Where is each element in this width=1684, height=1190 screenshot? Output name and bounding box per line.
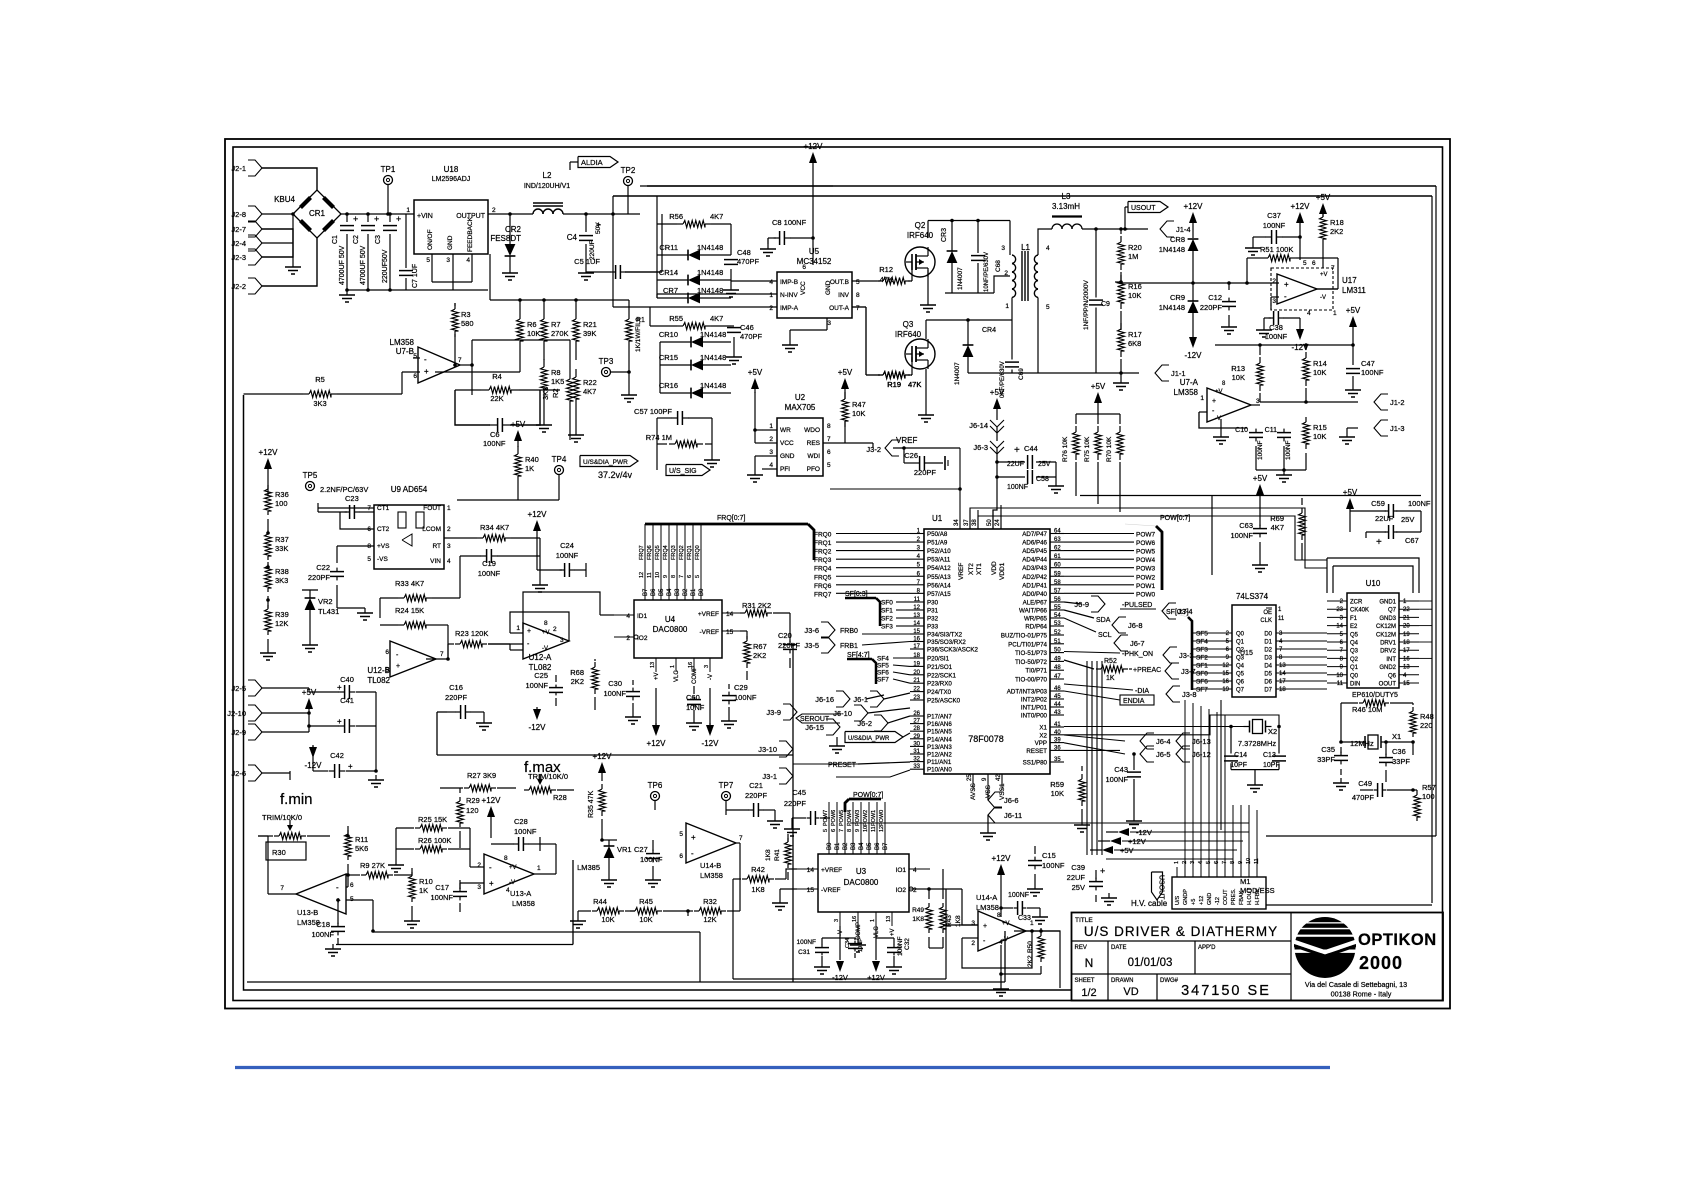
svg-text:R21: R21	[583, 320, 597, 329]
svg-text:11: 11	[647, 572, 653, 578]
svg-text:N-INV: N-INV	[780, 292, 798, 299]
svg-text:-VREF: -VREF	[821, 887, 841, 894]
svg-text:FRQ0: FRQ0	[695, 545, 701, 560]
ground C10C11	[1283, 470, 1285, 475]
svg-text:10K: 10K	[639, 915, 652, 924]
svg-text:1: 1	[670, 665, 676, 668]
wire L3 right	[1082, 228, 1128, 230]
svg-text:P52/A10: P52/A10	[927, 548, 951, 555]
svg-text:FRQ3: FRQ3	[671, 545, 677, 560]
svg-text:6: 6	[802, 264, 806, 271]
title block col dividers rev row	[1107, 941, 1109, 974]
svg-text:14: 14	[807, 867, 815, 874]
wire right rail y905	[1266, 904, 1432, 906]
svg-text:U9 AD654: U9 AD654	[391, 485, 428, 494]
svg-text:PCL/TI01/P74: PCL/TI01/P74	[1008, 641, 1047, 648]
svg-text:-12V: -12V	[1185, 351, 1203, 360]
svg-text:8: 8	[671, 575, 677, 578]
svg-text:U5: U5	[809, 247, 820, 256]
svg-text:CLK: CLK	[1260, 618, 1272, 624]
capacitor C2	[361, 225, 375, 227]
svg-text:U7-A: U7-A	[1180, 378, 1199, 387]
svg-text:1M: 1M	[1128, 252, 1138, 261]
transformer L1 primary	[1012, 255, 1016, 264]
ground U1	[987, 815, 989, 828]
test point TP2	[624, 177, 633, 186]
svg-text:+: +	[337, 717, 342, 726]
svg-text:+: +	[1100, 866, 1105, 876]
ground R74	[711, 455, 713, 460]
connector J2-1	[248, 160, 262, 176]
svg-text:J2-5: J2-5	[231, 684, 246, 693]
svg-text:10K: 10K	[1313, 368, 1326, 377]
svg-text:AD0/P40: AD0/P40	[1022, 591, 1047, 598]
svg-text:DIN: DIN	[1350, 682, 1360, 688]
svg-text:C2: C2	[353, 235, 360, 244]
svg-text:USOUT: USOUT	[1158, 875, 1165, 900]
svg-text:+: +	[1284, 280, 1289, 289]
ground J1-3	[1346, 432, 1348, 437]
svg-text:5: 5	[385, 667, 389, 674]
svg-text:C24: C24	[560, 541, 574, 550]
svg-text:INV: INV	[838, 292, 850, 299]
svg-text:+: +	[396, 663, 400, 670]
wire U10 right fan	[1419, 600, 1432, 602]
wire M1 right drops	[1248, 823, 1250, 867]
svg-text:R56: R56	[669, 212, 683, 221]
svg-text:-: -	[489, 863, 492, 872]
svg-text:U13-A: U13-A	[510, 889, 531, 898]
wire -V down arrow	[836, 961, 844, 972]
svg-text:Via del Casale di Settebagni,: Via del Casale di Settebagni, 13	[1305, 980, 1407, 989]
border frame outer	[225, 139, 1450, 1009]
svg-text:C10: C10	[1235, 427, 1248, 434]
IC U1 78F0078 box	[924, 529, 1050, 774]
svg-text:100NF: 100NF	[1408, 499, 1431, 508]
svg-text:R15: R15	[1313, 423, 1327, 432]
svg-text:10K: 10K	[1128, 291, 1141, 300]
svg-text:IRF640: IRF640	[895, 330, 922, 339]
capacitor C6 100NF	[497, 418, 499, 432]
svg-text:FRQ[0:7]: FRQ[0:7]	[717, 515, 745, 522]
svg-text:+5V: +5V	[990, 388, 1005, 397]
resistor R15 10K	[1303, 422, 1310, 444]
svg-text:R2: R2	[551, 388, 560, 398]
svg-text:P55/A13: P55/A13	[927, 574, 951, 581]
svg-text:C31: C31	[798, 949, 810, 956]
svg-text:P14/AN4: P14/AN4	[927, 736, 952, 743]
svg-text:+12V: +12V	[528, 510, 548, 519]
svg-text:POW6: POW6	[1136, 540, 1156, 547]
svg-text:-12: -12	[1215, 897, 1221, 905]
svg-text:13: 13	[650, 662, 656, 668]
SF bus right	[1188, 617, 1192, 690]
svg-text:10: 10	[1336, 673, 1343, 679]
resistor R76 10K vertical	[1073, 432, 1080, 454]
svg-text:ENDIA: ENDIA	[1123, 698, 1145, 705]
wire bottom run	[732, 879, 734, 979]
svg-text:25: 25	[967, 774, 973, 781]
svg-text:VR1: VR1	[617, 845, 632, 854]
svg-text:+12V: +12V	[593, 752, 613, 761]
flag U/S&DIA_PWR 2	[845, 732, 903, 743]
svg-text:4: 4	[769, 462, 773, 469]
svg-text:B5: B5	[659, 588, 665, 596]
svg-text:P12/AN2: P12/AN2	[927, 752, 952, 759]
svg-text:+5V: +5V	[838, 368, 853, 377]
svg-text:Q5: Q5	[1350, 632, 1359, 638]
ground R26	[395, 860, 397, 865]
resistor R38 3K3	[265, 566, 272, 588]
svg-text:+VS: +VS	[377, 543, 390, 550]
svg-text:6: 6	[679, 853, 683, 860]
svg-text:-: -	[336, 883, 339, 892]
svg-text:J3-8: J3-8	[1182, 690, 1197, 699]
svg-text:U/S&DIA_PWR: U/S&DIA_PWR	[583, 459, 628, 466]
svg-text:U4: U4	[665, 615, 676, 624]
svg-text:TP5: TP5	[303, 471, 318, 480]
capacitor C58 100NF	[1027, 470, 1029, 484]
svg-text:RD/P64: RD/P64	[1025, 624, 1047, 631]
svg-text:U1: U1	[932, 514, 943, 523]
ground C41C42	[375, 775, 377, 780]
svg-text:IMP-A: IMP-A	[780, 305, 799, 312]
svg-text:COUT: COUT	[1223, 889, 1229, 905]
flag USOUT vertical	[1152, 872, 1163, 900]
svg-text:P30: P30	[927, 600, 939, 607]
ground C21	[774, 816, 776, 821]
svg-text:C59: C59	[1371, 499, 1385, 508]
svg-text:AD3/P43: AD3/P43	[1022, 565, 1047, 572]
svg-text:CR1: CR1	[309, 209, 326, 218]
svg-text:P20/SI1: P20/SI1	[927, 656, 950, 663]
wire U14B out	[736, 842, 740, 844]
svg-text:SF7: SF7	[877, 677, 889, 684]
svg-text:POW0: POW0	[1136, 591, 1156, 598]
svg-text:C32: C32	[904, 938, 911, 950]
svg-text:1K8: 1K8	[751, 885, 764, 894]
svg-text:P33: P33	[927, 624, 939, 631]
svg-text:1K5: 1K5	[551, 377, 564, 386]
svg-text:R4: R4	[492, 372, 502, 381]
svg-text:J2-2: J2-2	[231, 282, 246, 291]
svg-text:23: 23	[1336, 607, 1343, 613]
power arrow +12V R55	[598, 762, 606, 773]
connector J2-9	[248, 724, 262, 740]
svg-text:16: 16	[1403, 656, 1410, 662]
power arrow +12V U17	[1296, 212, 1304, 223]
svg-text:+5: +5	[1191, 899, 1197, 905]
wire feedback	[471, 254, 473, 282]
svg-text:220PF: 220PF	[308, 573, 331, 582]
svg-text:J3-7: J3-7	[1181, 667, 1196, 676]
connector J6-9	[1091, 596, 1105, 612]
svg-text:R32: R32	[703, 897, 717, 906]
svg-text:C57 100PF: C57 100PF	[634, 407, 672, 416]
svg-text:C28: C28	[514, 817, 528, 826]
svg-text:1: 1	[1333, 310, 1337, 317]
svg-text:13: 13	[886, 916, 892, 922]
svg-text:C67: C67	[1405, 536, 1419, 545]
svg-text:1: 1	[516, 625, 520, 632]
svg-text:DAC0800: DAC0800	[844, 878, 879, 887]
svg-text:347150 SE: 347150 SE	[1181, 983, 1271, 999]
wire C10C11R15 bottom	[1256, 469, 1306, 471]
svg-text:6: 6	[687, 575, 693, 578]
ground C33	[1039, 912, 1041, 917]
svg-text:DRAWN: DRAWN	[1111, 978, 1133, 984]
svg-text:14: 14	[1336, 624, 1343, 630]
svg-text:22UF: 22UF	[1067, 873, 1086, 882]
svg-text:2: 2	[913, 887, 917, 894]
svg-text:J6-11: J6-11	[1004, 811, 1022, 820]
ground C60	[693, 718, 695, 723]
flag ENDIA	[1120, 695, 1154, 705]
svg-text:3K3: 3K3	[275, 576, 288, 585]
flag U/S_SIG	[666, 465, 710, 476]
svg-text:R68: R68	[570, 668, 584, 677]
svg-text:100NF: 100NF	[640, 855, 663, 864]
power arrow +5V J2	[305, 698, 313, 709]
transistor Q2 IRF640	[905, 247, 935, 277]
wire C36 bottom	[1385, 778, 1387, 782]
resistor R16 10K	[1118, 281, 1125, 303]
svg-text:D7: D7	[1264, 688, 1272, 694]
svg-text:DATE: DATE	[1111, 945, 1127, 951]
svg-text:SCL: SCL	[1098, 632, 1112, 639]
connector J3-7	[1165, 663, 1179, 679]
svg-text:VD: VD	[1123, 986, 1138, 998]
svg-text:REV: REV	[1075, 945, 1087, 951]
ground C31	[821, 962, 823, 967]
svg-text:10K: 10K	[1051, 789, 1064, 798]
wire U14A in4	[943, 924, 978, 926]
connector J2-7	[248, 221, 262, 237]
svg-text:+: +	[489, 879, 494, 888]
title block outline	[1072, 913, 1444, 1001]
svg-text:3: 3	[827, 320, 831, 327]
svg-text:+VREF: +VREF	[821, 867, 842, 874]
svg-text:580: 580	[461, 319, 474, 328]
svg-text:25V: 25V	[1401, 515, 1414, 524]
svg-text:R39: R39	[275, 610, 289, 619]
svg-text:Q1: Q1	[1236, 640, 1245, 646]
svg-text:C7 1UF: C7 1UF	[412, 264, 419, 288]
svg-text:POW6: POW6	[831, 810, 837, 826]
svg-text:10K: 10K	[601, 915, 614, 924]
svg-text:X1: X1	[1392, 732, 1401, 741]
ground C45	[791, 824, 793, 829]
connector J3-2	[885, 440, 899, 456]
wire power bundle +5V	[1114, 849, 1237, 851]
wire R13R14 toprail	[1215, 344, 1353, 346]
bridge diode top-right	[322, 196, 335, 209]
wire -VREF	[780, 888, 797, 890]
svg-text:SF7: SF7	[1196, 687, 1208, 694]
svg-text:FRQ4: FRQ4	[663, 545, 669, 560]
connector J2-10	[248, 705, 262, 721]
svg-text:10PF: 10PF	[1230, 762, 1247, 769]
svg-text:GND2: GND2	[1379, 665, 1396, 671]
svg-text:SF4: SF4	[1196, 639, 1208, 646]
wire U14A gnd	[1000, 945, 1002, 984]
svg-text:22UF: 22UF	[1007, 461, 1024, 468]
svg-text:Q3: Q3	[903, 320, 914, 329]
connector J6-15	[826, 719, 840, 735]
svg-text:-12V: -12V	[832, 973, 848, 982]
power arrow -12V U17	[1296, 329, 1304, 340]
svg-text:R41: R41	[774, 849, 781, 861]
svg-text:2: 2	[1272, 278, 1276, 285]
svg-text:BUZ/TIO-01/P75: BUZ/TIO-01/P75	[1001, 633, 1048, 640]
ground U7A	[1220, 419, 1222, 432]
svg-text:1N4148: 1N4148	[697, 243, 723, 252]
svg-text:X2: X2	[1268, 727, 1277, 736]
svg-text:25V: 25V	[1038, 461, 1051, 468]
svg-text:11: 11	[871, 826, 877, 832]
ground CR2	[509, 268, 511, 273]
resistor R18 2K2	[1320, 217, 1327, 239]
svg-text:LM358: LM358	[390, 338, 415, 347]
svg-text:-12V: -12V	[529, 723, 547, 732]
resistor R43 1K8	[940, 907, 947, 929]
svg-text:R14: R14	[1313, 359, 1327, 368]
zener VR1 LM385	[604, 846, 615, 858]
ground C30	[632, 712, 634, 717]
resistor R41 1K8	[785, 842, 792, 864]
svg-text:100: 100	[1422, 792, 1435, 801]
wire buses down right	[1296, 632, 1327, 634]
svg-text:+V: +V	[654, 672, 660, 680]
svg-text:WR/P65: WR/P65	[1024, 616, 1048, 623]
svg-text:INT0/P00: INT0/P00	[1021, 713, 1048, 720]
wire U12A fb	[510, 612, 569, 641]
svg-text:SF6: SF6	[1196, 679, 1208, 686]
svg-text:+: +	[596, 220, 601, 230]
svg-text:POW4: POW4	[847, 810, 853, 826]
wire CR3 C68 bottom rail	[945, 292, 994, 294]
svg-text:5: 5	[1046, 304, 1050, 311]
ground R22	[575, 430, 577, 435]
svg-text:C48: C48	[737, 248, 751, 257]
svg-text:SF6: SF6	[877, 670, 889, 677]
svg-text:5: 5	[413, 353, 417, 360]
resistor R7 270K	[541, 319, 548, 341]
svg-text:U14-B: U14-B	[700, 861, 721, 870]
connector J3-4	[1162, 603, 1176, 619]
resistor R75 10K vertical	[1095, 432, 1102, 454]
connector J2-5	[248, 680, 262, 696]
svg-text:B2: B2	[683, 588, 689, 596]
connector J2-2	[248, 278, 262, 294]
svg-text:F1: F1	[1350, 616, 1358, 622]
svg-text:R10: R10	[419, 877, 433, 886]
svg-text:+: +	[1376, 537, 1382, 548]
svg-text:IO2: IO2	[637, 635, 648, 642]
svg-text:-12V: -12V	[702, 739, 720, 748]
svg-text:R33 4K7: R33 4K7	[395, 579, 424, 588]
svg-text:+V: +V	[890, 928, 896, 936]
svg-text:VLC: VLC	[874, 926, 880, 938]
svg-text:J3-1: J3-1	[762, 772, 777, 781]
svg-text:VREF: VREF	[958, 563, 965, 580]
svg-text:LM2596ADJ: LM2596ADJ	[432, 176, 471, 183]
svg-text:TP3: TP3	[599, 357, 614, 366]
svg-text:C69: C69	[1018, 368, 1025, 380]
svg-text:37: 37	[964, 519, 970, 526]
svg-text:SEROUT: SEROUT	[800, 716, 830, 723]
wire R6 down to opamp	[435, 371, 520, 373]
wire top rail 2	[613, 195, 1432, 197]
power arrow +9V C59	[1346, 498, 1354, 509]
svg-text:U18: U18	[444, 165, 459, 174]
connector J1-1	[1155, 365, 1169, 381]
svg-text:P54/A12: P54/A12	[927, 565, 951, 572]
svg-text:+12V: +12V	[992, 854, 1012, 863]
flag ALDIA	[578, 157, 618, 168]
svg-text:J3-2: J3-2	[866, 445, 881, 454]
resistor R1 1K/1W/FIL0	[626, 319, 633, 341]
svg-text:-V: -V	[1215, 416, 1221, 422]
svg-text:19: 19	[1403, 632, 1410, 638]
svg-text:J1-1: J1-1	[1171, 369, 1186, 378]
svg-text:1N4148: 1N4148	[1159, 303, 1185, 312]
svg-text:100NF: 100NF	[478, 569, 501, 578]
svg-text:4K7: 4K7	[1271, 523, 1284, 532]
svg-text:IO1: IO1	[896, 867, 907, 874]
wire opamp out	[460, 364, 472, 366]
svg-text:TIO-50/P72: TIO-50/P72	[1015, 659, 1048, 666]
capacitor C1	[340, 225, 354, 227]
resistor R67 2K2	[744, 641, 751, 663]
power arrow -12V CR9	[1189, 337, 1197, 348]
svg-text:4K7: 4K7	[583, 387, 596, 396]
svg-text:Q3: Q3	[1350, 649, 1359, 655]
svg-text:C45: C45	[792, 788, 806, 797]
svg-text:CR10: CR10	[659, 330, 678, 339]
svg-text:P31: P31	[927, 608, 939, 615]
svg-text:C11: C11	[1265, 427, 1277, 434]
svg-text:U/S&DIA_PWR: U/S&DIA_PWR	[848, 736, 890, 742]
svg-text:+: +	[527, 628, 531, 635]
svg-text:+12V: +12V	[1291, 202, 1311, 211]
svg-text:5: 5	[856, 279, 860, 286]
ground cap rail	[346, 290, 348, 295]
svg-text:R30: R30	[272, 848, 286, 857]
svg-text:9: 9	[855, 829, 861, 832]
power arrow +12V left	[264, 458, 272, 469]
svg-text:CR9: CR9	[1170, 293, 1185, 302]
inner content box	[244, 395, 1072, 990]
svg-text:INT2/P02: INT2/P02	[1021, 697, 1048, 704]
svg-text:SF5: SF5	[877, 663, 889, 670]
wire XT2 rail	[970, 508, 1327, 568]
wire R3 junction	[454, 360, 456, 365]
svg-text:1: 1	[447, 505, 451, 512]
svg-text:R24 15K: R24 15K	[395, 606, 424, 615]
wire U17 out	[1315, 288, 1338, 290]
wire corridor 1	[661, 214, 663, 272]
svg-text:P36/SCK3/ASCK2: P36/SCK3/ASCK2	[927, 647, 978, 654]
resistor R6 10K	[517, 319, 524, 341]
svg-text:Q6: Q6	[1388, 673, 1397, 679]
svg-text:2: 2	[769, 436, 773, 443]
svg-text:1N4007: 1N4007	[954, 362, 961, 385]
svg-text:20: 20	[1403, 624, 1410, 630]
svg-text:7: 7	[739, 835, 743, 842]
svg-text:16: 16	[1222, 679, 1229, 685]
svg-text:R70 10K: R70 10K	[1106, 436, 1113, 462]
